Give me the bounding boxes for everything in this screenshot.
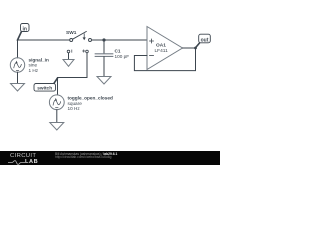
svg-text:switch: switch	[37, 86, 52, 92]
junction node (C1 tap on main wire)	[102, 38, 105, 41]
tag "switch"	[34, 78, 58, 92]
voltage source signal_in	[10, 57, 49, 73]
wire: junction down to C1	[103, 40, 105, 54]
ground (under switch left control pin)	[63, 60, 74, 67]
wire: source bottom to ground	[17, 72, 19, 83]
voltage source toggle_open_closed	[49, 95, 113, 111]
svg-text:out: out	[201, 37, 209, 43]
wire: feedback loop from - input around to output node	[134, 48, 195, 71]
switch SW1	[66, 30, 92, 53]
svg-text:sine: sine	[29, 63, 38, 68]
svg-text:OA1: OA1	[156, 42, 166, 48]
wire: op-amp output to out-node	[183, 47, 196, 49]
control pin + (right)	[86, 50, 89, 53]
svg-text:C1: C1	[115, 48, 121, 53]
op-amp OA1 LF411	[147, 27, 183, 70]
svg-text:signal_in: signal_in	[29, 57, 49, 62]
svg-text:SW1: SW1	[66, 30, 77, 36]
svg-text:1 Hz: 1 Hz	[29, 68, 39, 73]
wire: vertical from in-corner down to source signal_in	[17, 40, 19, 58]
ground (under signal_in)	[11, 84, 25, 92]
control pin - (left)	[67, 50, 70, 53]
svg-text:LF411: LF411	[155, 48, 169, 54]
ground (under toggle source)	[50, 123, 64, 131]
svg-text:in: in	[22, 26, 26, 32]
wire: control net from + pin down, left, down to toggle source	[58, 53, 88, 95]
wire: C1 bottom to ground	[103, 57, 105, 77]
junction node (output corner)	[194, 47, 197, 50]
wire: right main terminal to op-amp + input	[92, 39, 148, 41]
capacitor C1	[95, 48, 129, 59]
svg-text:square: square	[68, 101, 83, 106]
ground (under C1)	[97, 77, 111, 85]
wire: toggle source bottom to ground	[56, 110, 58, 123]
wire: main horizontal net from in-corner to switch left terminal	[18, 39, 70, 41]
tag "out"	[196, 34, 211, 48]
svg-text:10 Hz: 10 Hz	[68, 106, 81, 111]
svg-text:100 pF: 100 pF	[115, 54, 130, 59]
wire: left control pin stub to ground	[68, 53, 70, 60]
tag "in"	[18, 24, 30, 41]
svg-text:toggle_open_closed: toggle_open_closed	[68, 95, 113, 100]
